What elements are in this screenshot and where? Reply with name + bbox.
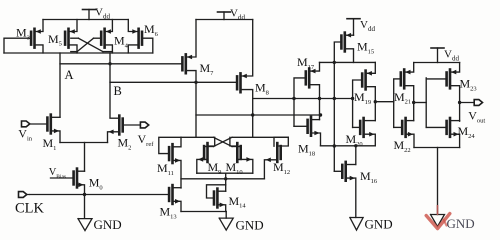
transistor M0 bbox=[76, 169, 79, 188]
svg-text:CLK: CLK bbox=[15, 201, 45, 217]
wire latch crossbar bbox=[181, 136, 214, 138]
svg-text:M21: M21 bbox=[394, 90, 411, 106]
wire M3 gate diode loop bbox=[4, 38, 31, 53]
power Vdd supply 3 bbox=[347, 18, 360, 20]
svg-text:M1: M1 bbox=[43, 136, 57, 152]
svg-text:M5: M5 bbox=[48, 32, 62, 48]
wire link between M7 and M8 drains bbox=[196, 114, 321, 116]
wire M11 gate diode loop bbox=[159, 137, 181, 153]
wire M15 gate vertical bbox=[334, 42, 341, 171]
transistor M19 bbox=[364, 71, 367, 90]
wire latch outer source rail bbox=[181, 178, 264, 180]
transistor M13 bbox=[171, 185, 174, 204]
wire Vin to M1 gate bbox=[30, 123, 48, 125]
wire M2 gate to Vref port bbox=[123, 124, 141, 126]
svg-text:M22: M22 bbox=[394, 138, 411, 154]
transistor M3 bbox=[33, 29, 36, 48]
svg-text:M19: M19 bbox=[354, 90, 371, 106]
svg-text:M0: M0 bbox=[89, 176, 103, 192]
watermark red logo bbox=[437, 205, 439, 215]
wire M15/M17 drain link bbox=[320, 61, 376, 63]
svg-text:M14: M14 bbox=[229, 194, 247, 210]
svg-text:B: B bbox=[114, 84, 122, 98]
svg-text:M13: M13 bbox=[160, 205, 177, 221]
wire M6 gate diode loop bbox=[142, 38, 153, 53]
svg-text:Vdd: Vdd bbox=[360, 19, 375, 33]
transistor M7 bbox=[185, 54, 188, 73]
ground GND1 bbox=[78, 219, 92, 231]
ground GND4 bbox=[350, 218, 363, 231]
transistor M5 bbox=[67, 29, 70, 48]
wire Vdd rail stage1 bbox=[43, 19, 128, 21]
wire Vdd rail stage4 bbox=[414, 62, 460, 64]
svg-text:M18: M18 bbox=[298, 142, 315, 158]
power Vdd supply 1 bbox=[83, 9, 96, 11]
transistor M12 bbox=[276, 143, 279, 162]
svg-text:M17: M17 bbox=[297, 55, 315, 71]
svg-text:M6: M6 bbox=[144, 22, 159, 38]
transistor M21 bbox=[403, 70, 406, 89]
svg-text:M15: M15 bbox=[357, 40, 374, 56]
svg-text:Vin: Vin bbox=[18, 127, 32, 143]
wire latch ground rail bbox=[181, 211, 226, 213]
power Vdd supply 2 bbox=[218, 11, 231, 13]
wire cross-coupling X between M9 and M10 bbox=[214, 137, 233, 146]
svg-text:M12: M12 bbox=[273, 160, 290, 176]
transistor M14 bbox=[216, 189, 219, 208]
transistor M11 bbox=[171, 144, 174, 163]
wire W1 output of stage2 to gates bbox=[253, 98, 353, 100]
svg-text:GND: GND bbox=[236, 218, 264, 233]
svg-text:Vdd: Vdd bbox=[444, 49, 459, 63]
wire node A to M7 gate bbox=[60, 63, 182, 65]
transistor M9 bbox=[206, 143, 209, 162]
power Vdd supply 4 bbox=[431, 47, 444, 49]
transistor M20 bbox=[362, 118, 365, 137]
transistor M8 bbox=[239, 73, 242, 92]
transistor M18 bbox=[310, 117, 313, 136]
node B bbox=[109, 53, 111, 117]
port Vref input bbox=[140, 122, 148, 128]
wire M21/M22 output to M23/M24 gates bbox=[412, 101, 415, 104]
svg-text:M7: M7 bbox=[200, 61, 215, 77]
svg-text:M16: M16 bbox=[360, 169, 378, 185]
wire M17 gate vertical bbox=[294, 78, 306, 126]
svg-text:M8: M8 bbox=[255, 81, 269, 97]
ground GND3 bbox=[219, 218, 233, 230]
wire CLK line bbox=[30, 194, 169, 196]
wire M12 gate diode loop bbox=[274, 137, 288, 146]
transistor M1 bbox=[49, 115, 52, 134]
wire cross-coupling X between M5 and M4 bbox=[71, 37, 79, 39]
port Vout output bbox=[474, 100, 482, 106]
transistor M17 bbox=[308, 69, 311, 88]
wire stage3 output to M21/M22 gates bbox=[374, 100, 377, 103]
transistor M24 bbox=[449, 118, 452, 137]
wire Vdd rail stage2 bbox=[196, 19, 253, 21]
svg-text:Vdd: Vdd bbox=[95, 7, 110, 21]
transistor M2 bbox=[118, 116, 121, 135]
svg-text:Vout: Vout bbox=[468, 109, 485, 125]
wire M19 gate vertical bbox=[353, 80, 363, 127]
wire M14 gate diode loop bbox=[207, 185, 226, 198]
transistor M4 bbox=[103, 29, 106, 48]
wire Vout bbox=[458, 101, 461, 104]
svg-text:M2: M2 bbox=[118, 136, 132, 152]
svg-text:VBias: VBias bbox=[49, 167, 66, 180]
wire node B to M8 gate bbox=[110, 81, 237, 83]
port Vin input bbox=[22, 121, 30, 127]
transistor M15 bbox=[343, 33, 346, 52]
node A bbox=[59, 53, 61, 117]
transistor M22 bbox=[404, 118, 407, 137]
wire latch inner source rail bbox=[197, 172, 253, 174]
transistor M16 bbox=[344, 162, 347, 181]
svg-text:GND: GND bbox=[94, 217, 122, 232]
svg-text:M4: M4 bbox=[114, 34, 129, 50]
wire M0 gate bias bbox=[51, 177, 74, 179]
svg-text:Vref: Vref bbox=[138, 132, 155, 148]
svg-text:M23: M23 bbox=[460, 77, 477, 93]
svg-text:A: A bbox=[65, 68, 74, 82]
svg-text:M3: M3 bbox=[16, 26, 30, 42]
wire tail node bbox=[60, 142, 108, 144]
svg-text:M24: M24 bbox=[458, 124, 476, 140]
wire drain rail node A/B bbox=[4, 52, 153, 54]
svg-text:GND: GND bbox=[365, 217, 393, 232]
transistor M23 bbox=[449, 70, 452, 89]
wire output ground rail bbox=[414, 147, 460, 149]
ground GND5 bbox=[431, 215, 445, 227]
transistor M6 bbox=[137, 29, 140, 48]
port CLK input bbox=[19, 192, 27, 198]
svg-text:GND: GND bbox=[447, 216, 475, 231]
transistor M10 bbox=[236, 143, 239, 162]
wire M18/M20 source link bbox=[321, 145, 376, 147]
